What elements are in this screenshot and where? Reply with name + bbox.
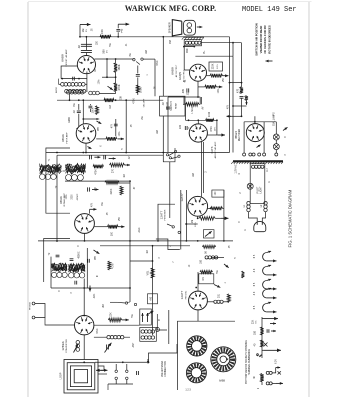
resistor R23v	[227, 294, 230, 303]
tube V8 12AT7b	[189, 291, 208, 310]
svg-text:180K: 180K	[117, 64, 121, 70]
svg-text:DIAL LAMPS: DIAL LAMPS	[273, 112, 276, 126]
label 1Mb	[109, 105, 112, 108]
wire v x152.5	[152, 246, 154, 335]
label value 3 at 72	[71, 292, 73, 294]
junction J4	[106, 76, 116, 78]
svg-text:MODEL 149 Ser: MODEL 149 Ser	[242, 6, 297, 14]
label value .02 at 130	[129, 156, 131, 160]
heater pin row 5 6 5	[253, 302, 276, 314]
label under V6	[78, 245, 80, 247]
tube V2 6BA6	[76, 124, 96, 144]
label value AM at 158	[156, 130, 159, 134]
label value 10% at 99.5	[99, 80, 101, 85]
junction busdots	[56, 240, 131, 242]
resistor R22	[200, 271, 220, 288]
label value 50 at 186	[185, 79, 187, 82]
svg-text:35W4: 35W4	[234, 131, 238, 139]
wire bus y100.2	[57, 99, 163, 101]
arrow voicecoil	[197, 26, 203, 29]
coil L9	[205, 256, 229, 268]
junction xfmr dots	[183, 46, 195, 48]
resistor R11 270	[110, 163, 131, 167]
svg-text:5%: 5%	[217, 270, 219, 273]
wire V9 plate right	[94, 324, 140, 326]
wire cathode V2	[86, 143, 91, 152]
svg-text:PILOT: PILOT	[258, 186, 260, 193]
page edge right	[308, 2, 310, 397]
tick marks br	[257, 354, 262, 357]
wire sw bottom	[108, 384, 133, 390]
wire v x223.9	[223, 190, 225, 241]
svg-text:AM DET AF AGC: AM DET AF AGC	[214, 141, 217, 158]
coil L3	[89, 91, 100, 95]
label mid2	[192, 173, 195, 177]
svg-text:6%: 6%	[102, 202, 104, 205]
label 12AT7 mix	[159, 209, 166, 220]
resistor R15 arrow	[108, 225, 125, 229]
transformer IF1 winding B	[66, 164, 86, 181]
resistor R12	[105, 181, 119, 185]
transformer T1 primary	[184, 40, 201, 46]
label value .01 at 127	[126, 43, 128, 47]
label cluster1	[66, 193, 79, 200]
svg-text:AM: AM	[145, 50, 148, 54]
junction dots bus37	[79, 36, 164, 38]
label mid1	[171, 245, 173, 247]
svg-text:47K: 47K	[226, 104, 229, 109]
label value 6 at 286	[285, 136, 287, 138]
wire v x186.4	[185, 190, 187, 241]
svg-text:FIG. 1 SCHEMATIC DIAGRAM: FIG. 1 SCHEMATIC DIAGRAM	[288, 189, 293, 247]
label .02	[77, 45, 81, 49]
resistor R18 bigarrow	[199, 217, 228, 221]
arrow note	[266, 60, 273, 63]
label value 6 at 60	[59, 290, 61, 292]
label pilot	[258, 186, 263, 193]
wire V9 bottom	[83, 335, 85, 360]
label socket a	[185, 389, 191, 392]
svg-text:5%: 5%	[132, 314, 134, 317]
wire v x185.5	[185, 104, 187, 120]
label 560	[102, 49, 109, 54]
label value 4 at 240	[239, 173, 241, 175]
label value .05 at 108	[107, 212, 109, 216]
wire v x163.3	[162, 37, 164, 162]
junction dots bus100	[69, 99, 117, 101]
label left2	[49, 252, 51, 255]
svg-text:AM: AM	[156, 130, 159, 134]
box V7 topright	[212, 190, 224, 197]
resistor R28v heater	[260, 340, 263, 347]
wire v x87.3	[86, 248, 88, 288]
label heater 40	[254, 343, 257, 346]
coil L10 plate	[207, 300, 228, 303]
resistor R13 1meg	[183, 103, 200, 107]
resistor R24 arrow	[108, 318, 129, 322]
transformer T1 core hatch	[182, 37, 204, 40]
label heater 22K	[252, 319, 258, 324]
wire rect top rail	[244, 121, 276, 123]
label .02b	[73, 110, 76, 114]
svg-text:CONNECTION: CONNECTION	[165, 361, 167, 377]
resistor R7 arrow	[198, 85, 222, 89]
label L6a pins	[244, 204, 246, 207]
lamp X br	[278, 371, 281, 374]
arrow IF1b	[73, 168, 81, 173]
label value T2 at 57	[56, 185, 58, 188]
svg-text:+45: +45	[120, 28, 124, 33]
label socket b	[219, 380, 226, 383]
label mid3	[206, 171, 208, 173]
svg-text:6AB8: 6AB8	[171, 67, 175, 75]
junction J2	[61, 78, 80, 80]
label 35W4	[234, 129, 241, 141]
box trimmer	[203, 230, 214, 238]
coil L11 osc	[74, 341, 80, 353]
svg-text:10%: 10%	[99, 80, 101, 85]
pot circle	[156, 328, 160, 332]
resistor R8v 100K	[96, 106, 99, 115]
svg-text:220K: 220K	[212, 63, 215, 69]
wire rect left	[243, 122, 245, 153]
wire cap to tube V1	[85, 53, 87, 56]
resistor R3v 470K	[114, 83, 117, 92]
wire br bottom arrow	[272, 382, 283, 385]
tick marks top	[257, 354, 262, 357]
label value 6% at 103	[102, 202, 104, 205]
box power unit	[250, 164, 265, 204]
label 10Mb	[208, 112, 211, 117]
svg-text:100K: 100K	[92, 107, 95, 113]
resistor R20v 47M	[108, 261, 115, 270]
wire down V4	[197, 87, 199, 97]
heater pin row 3 6 5	[253, 279, 276, 291]
wire bus y240.9	[38, 240, 233, 242]
wire plate V7	[208, 208, 212, 210]
svg-text:6AT6: 6AT6	[210, 146, 214, 153]
svg-text:ANT: ANT	[132, 342, 135, 347]
svg-text:22K: 22K	[110, 312, 113, 317]
label value 5% at 218	[217, 270, 219, 273]
wire br left	[258, 382, 262, 389]
arrow IF1a	[51, 168, 59, 173]
svg-text:CONVERTER: CONVERTER	[66, 339, 68, 353]
svg-text:470K: 470K	[117, 84, 121, 90]
label 117V	[235, 164, 238, 174]
resistor R1 15K on top bus	[100, 35, 111, 39]
box 220K	[209, 62, 223, 71]
wire y181	[65, 180, 130, 182]
svg-text:1 MEG: 1 MEG	[191, 106, 194, 114]
label value 6 at 240	[239, 221, 241, 223]
label value .05 at 230	[229, 245, 231, 249]
label L6b pins	[261, 204, 263, 207]
svg-text:10%: 10%	[214, 127, 216, 131]
label value AVC at 95	[93, 293, 96, 298]
box padder	[140, 309, 152, 325]
wire L1 ends	[59, 79, 87, 85]
wire v x158 step	[158, 204, 175, 241]
wire grid left V1	[61, 66, 78, 79]
capacitor C11 x168	[166, 107, 170, 109]
terminal pair A	[266, 371, 272, 374]
box function switch	[160, 96, 185, 116]
label 180b	[200, 259, 203, 264]
svg-text:SPEAKER: SPEAKER	[168, 22, 171, 33]
wire v x168	[167, 97, 169, 153]
junction J3	[106, 58, 116, 60]
label 22K	[110, 312, 113, 317]
svg-text:6BA6: 6BA6	[59, 196, 63, 204]
label 470K5	[117, 84, 121, 90]
label 470K10	[210, 126, 216, 132]
wire riser x83.3	[82, 100, 84, 124]
arrow V6 top	[90, 208, 97, 214]
label value 33K at 121.5	[121, 95, 123, 100]
svg-text:450: 450	[185, 48, 189, 53]
svg-text:.005: .005	[182, 89, 185, 94]
label value IF at 98	[97, 274, 99, 277]
arrow loop feed	[101, 369, 108, 372]
svg-text:560: 560	[102, 49, 106, 54]
capacitor C4 x137.8	[136, 75, 140, 77]
svg-text:470: 470	[237, 88, 240, 93]
wire v x137.8 switch	[137, 66, 139, 96]
wire loop leads	[98, 366, 107, 374]
resistor R10 470K	[93, 165, 104, 175]
svg-text:470K: 470K	[133, 98, 136, 104]
svg-text:6%: 6%	[74, 103, 76, 106]
power plug P1	[254, 221, 266, 231]
label +45	[120, 28, 124, 33]
wire y224 seg	[185, 223, 198, 225]
svg-text:15K: 15K	[100, 29, 104, 34]
svg-text:3300: 3300	[72, 194, 74, 200]
resistor R4	[104, 98, 114, 102]
svg-text:6AB8: 6AB8	[61, 54, 65, 62]
label value 455 at 96	[95, 255, 97, 260]
svg-text:.02: .02	[77, 45, 81, 49]
svg-text:455KC: 455KC	[77, 193, 79, 200]
label value 250 at 120	[119, 216, 121, 221]
wire hor y106	[232, 105, 246, 107]
svg-text:47K: 47K	[110, 123, 113, 128]
svg-text:47K: 47K	[91, 202, 94, 207]
wire hor y82.6	[229, 82, 243, 84]
label 47K	[110, 123, 113, 128]
wire v x115.6	[115, 59, 117, 83]
label 56	[205, 251, 208, 254]
label value AV at 203.5	[202, 106, 205, 109]
svg-text:SWITCH: SWITCH	[170, 101, 173, 111]
wire V7 bottom	[197, 216, 199, 219]
svg-text:1M: 1M	[124, 174, 126, 177]
wire v x78.8 grid	[76, 104, 79, 129]
resistor R9 arrow	[106, 137, 124, 141]
svg-text:FM OSC: FM OSC	[185, 290, 187, 299]
wire y288	[51, 287, 92, 289]
resistor R19 56	[202, 245, 216, 248]
label 6AB8 AF	[171, 64, 178, 77]
label value AM at 147	[145, 50, 148, 54]
svg-text:220K: 220K	[110, 188, 113, 194]
wire hor y116.3	[227, 115, 243, 118]
wire rect feed	[254, 116, 256, 123]
svg-text:PM: PM	[170, 40, 172, 44]
svg-text:FM IF AMP: FM IF AMP	[65, 132, 68, 143]
wire bus y362.3	[95, 361, 149, 363]
svg-text:OSC: OSC	[157, 60, 159, 65]
label value 1M at 148	[147, 250, 149, 253]
wire v x51	[50, 257, 52, 288]
resistor R14	[206, 119, 214, 122]
label value 220 at 97.5	[97, 40, 99, 45]
wire plate V4	[184, 47, 190, 70]
label value 10% at 120	[119, 132, 121, 137]
tube V4 6AQ5	[190, 64, 207, 81]
label left1	[49, 158, 51, 161]
junction dots bus152	[56, 152, 164, 154]
svg-text:.02: .02	[162, 102, 165, 106]
label 220Kb	[110, 188, 113, 194]
wire L2 down	[69, 94, 71, 101]
label value 5 at 236	[235, 257, 237, 259]
wire v x115.8	[114, 119, 118, 136]
box if2 left	[44, 239, 70, 283]
arrow IF2 down	[89, 286, 92, 292]
wire v x180.5 long	[180, 190, 182, 250]
svg-text:455KC: 455KC	[79, 251, 81, 258]
svg-text:LIGHT: LIGHT	[261, 186, 263, 193]
loop antenna LA1	[64, 360, 98, 394]
svg-text:117V AC: 117V AC	[235, 164, 238, 174]
resistor R17	[211, 207, 224, 211]
label value 5% at 133	[132, 314, 134, 317]
arrow y120	[97, 121, 102, 124]
socket X3 6AB8	[211, 347, 236, 372]
label det	[55, 87, 58, 94]
box V8 top	[199, 274, 214, 284]
resistor R2v 180K	[114, 63, 117, 73]
svg-text:SWITCH IN AM POSITION: SWITCH IN AM POSITION	[255, 23, 259, 56]
label value 2M at 104	[103, 304, 105, 307]
wire stair1	[156, 239, 180, 250]
wire plate riser V1	[85, 37, 87, 50]
wire row y78.6	[61, 78, 87, 80]
label top3	[147, 74, 149, 76]
svg-text:6.3V: 6.3V	[276, 359, 278, 364]
wire row y119	[82, 118, 99, 120]
label value .1 at 226	[225, 281, 227, 284]
label 6BA6 fm	[61, 132, 68, 143]
wire y261 seg	[130, 260, 153, 262]
wire y183 row	[108, 182, 130, 184]
svg-text:6 5: 6 5	[253, 282, 256, 286]
label value B+ at 205	[204, 50, 206, 54]
svg-text:180: 180	[200, 259, 203, 264]
wire jack leads	[35, 304, 60, 326]
tube V1 6AB8	[77, 56, 95, 74]
wire B+ top bus y37	[80, 36, 230, 38]
label vol	[148, 270, 150, 275]
wire lamps chain	[275, 122, 277, 153]
label 100Kb	[92, 107, 95, 113]
title WARWICK MFG. CORP.	[125, 4, 217, 13]
wire row y77.2	[102, 76, 116, 78]
capacitor C18 heater	[267, 329, 276, 333]
wire left x57 lower	[56, 155, 58, 242]
svg-text:AVC: AVC	[93, 293, 96, 298]
label 47 heater	[241, 271, 244, 278]
capacitor C2 .02	[81, 44, 92, 46]
svg-text:5%: 5%	[256, 320, 258, 323]
junction y362 dots	[122, 361, 150, 363]
svg-text:WARWICK MFG. CORP.: WARWICK MFG. CORP.	[125, 4, 217, 13]
capacitor C3 in row	[73, 77, 75, 81]
capacitor C5 .005	[182, 88, 189, 93]
wire heater drop vert	[261, 317, 263, 358]
coil L2 row scribble	[65, 89, 86, 94]
svg-text:10M: 10M	[208, 112, 211, 117]
svg-text:VOL: VOL	[148, 270, 150, 275]
coil L5 filter	[252, 165, 265, 168]
wire br hook	[272, 366, 280, 373]
switch S2 cluster	[166, 150, 180, 159]
page edge top	[28, 1, 312, 3]
label 100c	[111, 231, 114, 236]
label 6AT6	[210, 141, 217, 158]
socket X2 12AT7	[186, 363, 206, 383]
label 450	[185, 48, 189, 53]
label 6AB8	[61, 49, 68, 67]
lamp X heater	[264, 343, 268, 347]
wire V3 top riser	[197, 120, 199, 124]
capacitor C10 arrow	[88, 187, 99, 191]
capacitor C2b	[81, 51, 92, 53]
wire V3 drop a	[201, 142, 203, 197]
wire plate V6	[94, 226, 107, 228]
svg-text:12BE6: 12BE6	[61, 341, 65, 351]
svg-text:REAR: REAR	[175, 103, 178, 109]
wire stair right2	[157, 314, 167, 330]
label value PM at 171	[170, 40, 172, 44]
svg-text:100: 100	[111, 231, 114, 236]
label value ANT at 134	[132, 342, 135, 347]
label value 5% at 111	[110, 43, 112, 46]
svg-text:10%: 10%	[195, 222, 197, 226]
svg-text:270: 270	[112, 168, 115, 173]
coil L12	[94, 336, 130, 339]
heater pin row 1 6 5	[253, 251, 276, 263]
junction J5	[82, 99, 127, 101]
svg-text:USE ANTENNA: USE ANTENNA	[161, 360, 164, 377]
page edge left	[27, 2, 29, 397]
box fm section	[46, 148, 70, 213]
svg-text:OF CHASSIS. FOR FM: OF CHASSIS. FOR FM	[263, 25, 267, 54]
capacitor C8 pair	[90, 155, 101, 159]
label 47Kc	[91, 202, 94, 207]
svg-text:330: 330	[254, 330, 257, 335]
wire V8 bottom	[197, 310, 199, 321]
label 1MEG	[191, 106, 194, 114]
wire rect right	[263, 122, 265, 153]
label heater 330	[254, 330, 257, 335]
svg-text:5%: 5%	[110, 43, 112, 46]
wire plate V2 y138.9	[96, 138, 106, 140]
svg-text:1M: 1M	[191, 220, 194, 223]
junction y120 dots	[188, 119, 218, 121]
